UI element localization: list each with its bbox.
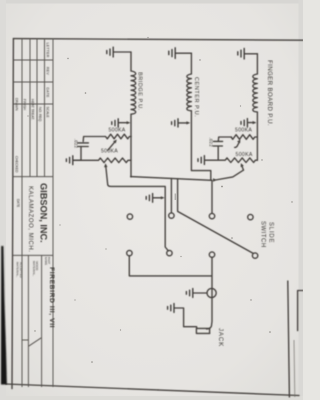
revision table divider date/scale <box>13 103 53 105</box>
wire fingerboard line right <box>256 112 258 160</box>
corner bracket artifact <box>298 291 303 331</box>
svg-text:NO. REQ.: NO. REQ. <box>38 107 42 122</box>
wire bridge wiper to switch <box>108 185 169 251</box>
jack sleeve circle <box>207 288 216 297</box>
ground arrow fingerboard wire <box>248 122 255 124</box>
jack sleeve ground bars <box>186 289 192 298</box>
ground arrow bridge bars <box>112 119 118 127</box>
connector at u340 <box>22 339 28 341</box>
pickup L1 BRIDGE P.U. coil <box>131 71 136 114</box>
svg-text:DRAWN: DRAWN <box>14 98 18 111</box>
scan edge shading left <box>0 0 6 400</box>
switch terminal r1c2 <box>169 213 174 218</box>
wiper arrow R1 head <box>113 140 117 144</box>
wiper arrow R2 head <box>104 163 108 167</box>
svg-text:.022: .022 <box>73 139 78 149</box>
switch terminal r1c3 <box>209 213 214 218</box>
wiper arrow R4 head <box>241 163 244 167</box>
switch terminal r2c3 <box>209 252 214 257</box>
svg-text:MATERIAL,: MATERIAL, <box>16 262 20 277</box>
ground arrow center head <box>186 121 190 124</box>
wiper arrow R4 <box>242 166 244 171</box>
paper edge shadow line left <box>6 150 8 384</box>
svg-text:500KA: 500KA <box>235 128 252 134</box>
title block row line drawn <box>21 39 23 387</box>
jack sleeve ground stub <box>193 292 207 294</box>
wire r2c1 to jack line <box>129 256 211 276</box>
jack ground 2 wire <box>175 308 197 328</box>
switch terminal r2c1 <box>127 250 132 255</box>
ground arrow wiper bars <box>146 194 152 203</box>
page border right <box>6 384 299 396</box>
page border bottom <box>12 39 13 389</box>
switch terminal r1c4 <box>248 214 253 219</box>
page border left <box>13 39 303 41</box>
ground arrow center wire <box>178 122 188 124</box>
junction arrowhead <box>213 178 217 181</box>
ground arrow fingerboard bars <box>241 119 247 127</box>
wire branch diagonal to switch r2c4 <box>178 179 254 254</box>
svg-text:SCALE: SCALE <box>46 107 50 119</box>
svg-text:SLIDE: SLIDE <box>268 222 274 243</box>
svg-text:500KA: 500KA <box>101 149 118 155</box>
wire bridge line right <box>130 114 132 177</box>
svg-text:CHECKED: CHECKED <box>14 156 18 173</box>
potentiometer R4 fingerboard volume 500K <box>205 158 257 163</box>
svg-text:REV: REV <box>46 67 50 75</box>
svg-text:FIREBIRD III, VII: FIREBIRD III, VII <box>48 267 55 328</box>
potentiometer R3 fingerboard tone 500K <box>231 135 257 140</box>
wire junction to switch c3 <box>211 180 213 213</box>
title block top line <box>52 39 54 387</box>
svg-text:500KA: 500KA <box>108 127 125 133</box>
svg-text:SWITCH: SWITCH <box>259 221 265 248</box>
svg-text:FINISH: FINISH <box>23 99 27 111</box>
svg-text:.022: .022 <box>208 138 213 148</box>
potentiometer R1 bridge tone 500K <box>105 134 131 139</box>
svg-text:500KA: 500KA <box>236 152 253 158</box>
ground G4 bars <box>66 156 72 165</box>
black scan band left bottom <box>1 246 7 385</box>
title block row line partname right 2 <box>27 255 29 387</box>
svg-text:CENTER P.U.: CENTER P.U. <box>193 77 199 117</box>
ground G2 center stub <box>176 52 192 54</box>
svg-text:FINGER BOARD P.U.: FINGER BOARD P.U. <box>266 60 273 126</box>
ground G2 center bars <box>169 48 175 59</box>
wiper arrow R1 <box>108 142 115 151</box>
scan edge shading top <box>0 0 303 4</box>
ground G5 bars <box>198 156 204 165</box>
capacitor C2 .022 plates <box>213 141 222 146</box>
wire C2 to R4 ground wire <box>217 146 219 160</box>
wiper arrow R2 <box>106 166 108 184</box>
svg-text:KALAMAZOO, MICH.: KALAMAZOO, MICH. <box>27 186 33 252</box>
ground arrow fingerboard head <box>253 121 257 124</box>
svg-text:DATE: DATE <box>46 88 50 99</box>
potentiometer R2 bridge volume 500K <box>73 158 131 163</box>
ground arrow wiper wire <box>153 197 162 199</box>
fold line artifact near top border <box>293 340 296 397</box>
wiper arrow R3 head <box>237 140 240 144</box>
revision table divider letter/rev <box>13 59 53 61</box>
ground arrow bridge wire <box>119 122 129 124</box>
wire R4 wiper to junction <box>215 170 243 180</box>
wire bridge line left <box>130 52 132 71</box>
ground arrow bridge head <box>127 121 131 124</box>
svg-text:NAME: NAME <box>44 257 48 265</box>
svg-text:LETTER: LETTER <box>46 43 50 58</box>
ground G1 bridge bars <box>107 47 113 57</box>
capacitor C1 .022 plates <box>78 143 89 147</box>
wiper arrow R3 <box>235 142 240 148</box>
ground G3 fingerboard bars <box>238 48 244 59</box>
svg-text:HEAT TREAT.: HEAT TREAT. <box>30 99 34 120</box>
gibson box left edge <box>13 176 53 178</box>
svg-text:BRIDGE P.U.: BRIDGE P.U. <box>137 72 143 111</box>
svg-text:JACK: JACK <box>217 328 224 347</box>
wire center line left <box>190 53 192 74</box>
scan edge shading bottom <box>0 396 303 400</box>
title block row line partname right 1 <box>41 255 43 387</box>
svg-text:DATE: DATE <box>16 199 20 207</box>
wire branch to switch c2 <box>170 179 172 213</box>
ground arrow center bars <box>172 119 178 127</box>
ground G3 fingerboard stub <box>245 53 258 55</box>
wire R3 to C2 <box>218 137 231 141</box>
switch terminal r2c2 <box>167 250 172 255</box>
scan edge shading right <box>299 0 304 400</box>
svg-text:GIBSON, INC.: GIBSON, INC. <box>38 183 48 243</box>
wire center line right <box>191 111 210 180</box>
title block row line heattreat/finish <box>29 39 31 177</box>
part name box left edge <box>13 254 53 256</box>
diagonal slash <box>29 338 42 346</box>
faint dash artifact <box>174 194 176 201</box>
jack ground 2 bars <box>168 304 174 313</box>
ground arrow wiper head <box>161 196 165 199</box>
switch terminal r1c1 <box>127 214 132 219</box>
wire bridge output vertical <box>131 177 212 181</box>
pickup L2 CENTER P.U. coil <box>187 74 192 111</box>
wire r2c3 to jack <box>207 257 212 329</box>
switch terminal r2c4 <box>252 253 257 258</box>
jack J1 plug box <box>196 328 209 333</box>
wire fingerboard line left <box>256 54 258 74</box>
wire C1 to ground <box>73 147 81 161</box>
title block row line scale/noreq <box>44 39 46 177</box>
pickup L3 FINGERBOARD P.U. coil <box>253 74 258 112</box>
page border top (partial) <box>288 281 290 397</box>
ground G1 bridge stub <box>114 51 131 53</box>
scan speckles <box>27 37 292 391</box>
revision table divider rev/date <box>13 81 53 83</box>
svg-text:MATERIAL,: MATERIAL, <box>32 261 36 276</box>
title block row line noreq/heattreat (thick) <box>36 39 38 177</box>
wire R1 to C1 <box>83 137 105 142</box>
